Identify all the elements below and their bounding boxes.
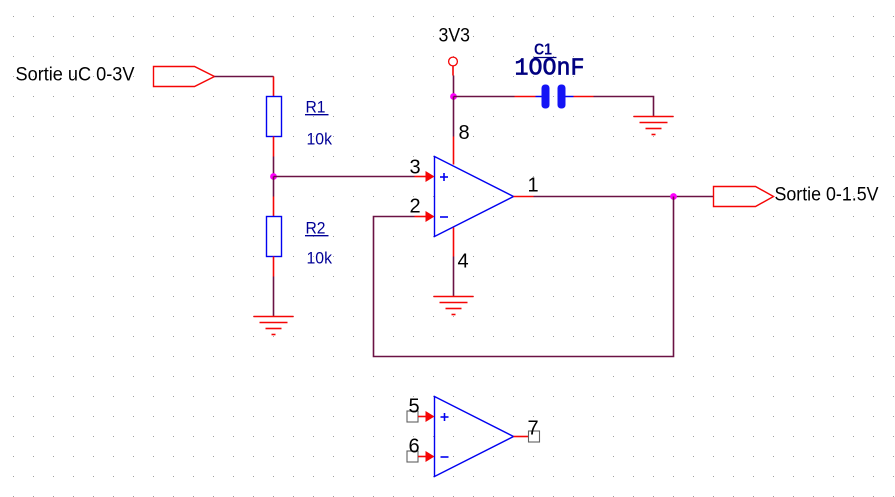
wire: R2 bottom to ground bbox=[273, 277, 275, 317]
svg-text:3: 3 bbox=[410, 157, 421, 179]
svg-text:2: 2 bbox=[410, 196, 421, 218]
wire: 3V3 terminal down to node B bbox=[452, 66, 455, 97]
svg-text:R1: R1 bbox=[306, 98, 326, 117]
svg-text:Sortie 0-1.5V: Sortie 0-1.5V bbox=[775, 185, 879, 206]
svg-text:1OOnF: 1OOnF bbox=[515, 56, 585, 83]
wire: input terminal to R1 top bbox=[215, 76, 274, 78]
pin 8 (V+) bbox=[453, 137, 455, 165]
ground (C1 right) bbox=[634, 117, 674, 135]
wire: capacitor C1 to right ground bbox=[574, 97, 654, 117]
capacitor C1 bbox=[536, 85, 574, 109]
svg-text:7: 7 bbox=[528, 418, 539, 440]
pin 4 (V-) bbox=[453, 228, 455, 257]
svg-text:8: 8 bbox=[459, 122, 470, 144]
resistor R2 bbox=[267, 197, 282, 277]
svg-text:6: 6 bbox=[409, 436, 420, 458]
svg-text:10k: 10k bbox=[307, 130, 333, 149]
node C (output / feedback junction) bbox=[670, 193, 677, 200]
op-amp U1:A bbox=[435, 157, 514, 237]
svg-text:5: 5 bbox=[409, 396, 420, 418]
wire: pin 1 to output terminal bbox=[534, 196, 714, 198]
output terminal (Sortie 0-1.5V) bbox=[714, 187, 774, 207]
pin 2 (inverting input) bbox=[415, 211, 435, 222]
node A (junction R1/R2/op-amp input) bbox=[270, 173, 277, 180]
ground (below R2) bbox=[254, 317, 294, 335]
svg-text:R2: R2 bbox=[306, 219, 326, 238]
wire: node B down to pin 8 bbox=[453, 97, 455, 137]
wire: node A to op-amp pin 3 bbox=[274, 176, 415, 178]
pin 3 (non-inverting input) bbox=[415, 171, 435, 182]
feedback wire: output node to pin 2 bbox=[374, 197, 674, 357]
wire: R1 bottom to node A bbox=[273, 157, 275, 177]
svg-text:3V3: 3V3 bbox=[439, 26, 471, 47]
node B (3V3 / pin 8 / C1 junction) bbox=[450, 93, 457, 100]
label R1 bbox=[305, 98, 329, 117]
pin 1 (output) bbox=[514, 196, 534, 198]
svg-text:Sortie uC 0-3V: Sortie uC 0-3V bbox=[16, 65, 135, 86]
pin 7 (output, unconnected) bbox=[514, 431, 540, 442]
input terminal (Sortie uC 0-3V) bbox=[154, 67, 215, 87]
power terminal 3V3 bbox=[449, 57, 458, 66]
wire: node A down to R2 bbox=[273, 177, 275, 197]
ground (op-amp pin 4) bbox=[434, 297, 474, 315]
svg-text:10k: 10k bbox=[307, 249, 333, 268]
wire: node B to capacitor C1 bbox=[454, 96, 536, 98]
pin 6 (inverting input, unconnected) bbox=[407, 451, 435, 462]
svg-text:4: 4 bbox=[458, 251, 469, 273]
svg-text:1: 1 bbox=[528, 175, 539, 197]
label R2 bbox=[305, 219, 329, 238]
op-amp U1:B bbox=[435, 397, 514, 477]
resistor R1 bbox=[267, 77, 282, 157]
pin 5 (non-inverting input, unconnected) bbox=[407, 411, 435, 422]
label C1 bbox=[534, 42, 557, 59]
wire: pin 4 to ground bbox=[453, 257, 455, 297]
